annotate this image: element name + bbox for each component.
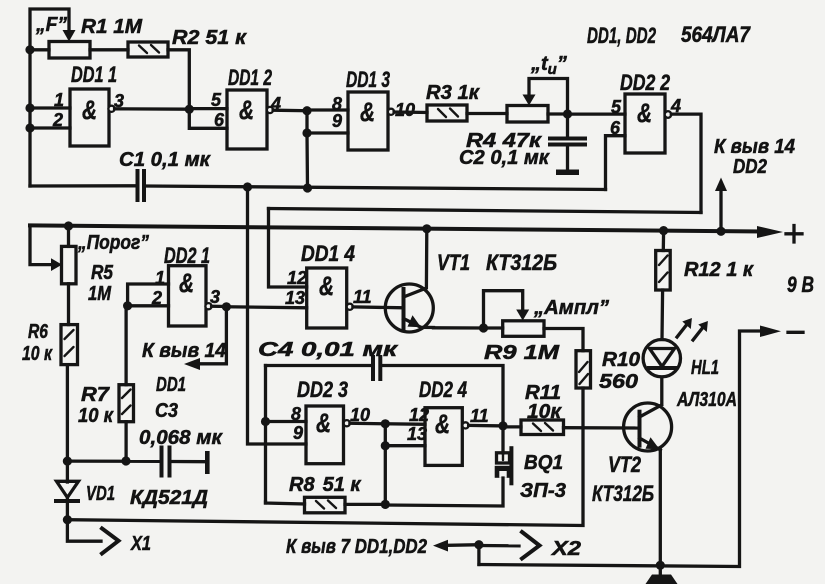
svg-text:5: 5 [211,90,222,110]
node rail-arrow14 [716,227,725,236]
potentiometer R5 [62,246,77,283]
arrow K vyv 14 DD2 [719,189,722,231]
transistor VT1 [385,284,433,332]
svg-text:КТ312Б: КТ312Б [486,250,557,275]
svg-text:DD2 4: DD2 4 [419,377,467,402]
svg-text:10 к: 10 к [78,405,114,427]
C3 end bar [205,451,210,474]
wire tu bracket [529,79,568,115]
minus arrowhead [760,326,781,338]
wire R7 bottom [124,422,127,461]
svg-text:DD2: DD2 [733,156,767,178]
wire R5 top [67,226,70,246]
node R7-C3 [121,456,130,465]
svg-text:C1 0,1 мк: C1 0,1 мк [119,149,211,171]
wire R8 right lead [345,503,385,506]
wire node B loop to pin 9 [307,111,348,133]
C2 plate top [550,137,585,141]
R6 hatch [65,330,74,356]
resistor R10 [576,351,591,388]
diode VD1 lead top [66,461,69,482]
arrow K vyv 14 DD1 [184,358,200,370]
svg-text:3: 3 [210,287,220,307]
R2 hatch [139,45,159,53]
svg-text:C3: C3 [155,400,178,422]
wire R9 right to R10 [544,329,583,351]
resistor R7 [119,385,134,422]
wire DD1.3 out to R3 [394,110,427,114]
HL1 flash arrow 1 [677,323,688,337]
C3 plate left [160,448,164,476]
wire C4 top line [266,364,372,367]
node emitter-bottom [656,561,665,570]
wire vertical x248 [248,187,307,444]
wire C4 right to output node [383,366,504,426]
wire R7 top [124,306,127,385]
VT1 emitter [404,319,434,328]
wire R6 down to C3 line [66,365,69,462]
svg-text:6: 6 [214,110,225,130]
svg-text:13: 13 [285,288,305,308]
svg-text:VT2: VT2 [608,452,642,477]
svg-text:„Порог”: „Порог” [77,232,149,254]
wire x268 from line2 to DD1.4 pin12 [269,209,307,288]
wire BQ1 bottom lead [385,478,503,506]
svg-text:R1 1М: R1 1М [81,16,143,38]
X2 arrowhead [522,532,540,559]
gate DD1.2 [227,90,267,149]
VD1 cathode bar [56,499,78,503]
wire R5 to R6 [67,284,70,325]
HL1 flash arrow 2 [693,326,704,340]
wire R4 right to node C [548,112,568,115]
R3 hatch [438,109,458,118]
wire left rail [30,9,69,186]
svg-text:C4 0,01 мк: C4 0,01 мк [258,339,398,361]
label plus [786,226,802,243]
svg-text:DD1 2: DD1 2 [228,65,273,90]
node rail-R5 [64,221,73,230]
ground symbol [646,575,678,584]
wire line2 [269,209,702,213]
svg-text:R2 51 к: R2 51 к [172,27,247,49]
svg-text:R7: R7 [81,384,110,406]
svg-text:0,068 мк: 0,068 мк [139,427,223,449]
wire node B down to line1 [305,133,309,188]
wire R8 left lead [266,502,305,504]
wire node F to DD2.4 pin12 [385,422,425,426]
svg-text:DD1: DD1 [156,374,186,396]
gate DD2.2 [625,94,665,153]
svg-text:10: 10 [395,100,415,120]
wire node G to R11 [503,425,521,428]
node rail-VT1 [422,224,431,233]
wire DD1.4 out to VT1 base [353,305,404,309]
C3 plate right [168,448,172,476]
HL1 cathode bar [649,366,676,370]
wire R1 wiper arrow [63,30,76,42]
wire rail left loop to R5 wiper [30,225,52,264]
wire C3 right [172,460,205,464]
wire X2 stub down [477,545,480,565]
svg-text:&: & [637,98,652,128]
svg-text:C2 0,1 мк: C2 0,1 мк [459,147,550,169]
svg-text:10к: 10к [527,401,562,423]
wire DD2.3 out to node F [350,422,385,426]
resistor R11 [521,420,564,435]
wire C3 line left [67,459,159,462]
wire node E to R9 [484,326,503,329]
VD1 triangle [57,481,79,497]
svg-text:DD2 3: DD2 3 [297,377,348,402]
wire DD2.2 pin6 loop to line1 [606,136,626,190]
wire DD2.3 pin8 [266,420,307,423]
wire plus rail [30,225,770,231]
capacitor C1 left wire / line1 [30,184,136,187]
VT1 collector [404,229,427,297]
wire VT2 emitter down [659,450,662,565]
stub K vyv 14 DD1 [198,307,226,364]
svg-text:1М: 1М [88,283,112,305]
svg-text:10 к: 10 к [22,343,53,365]
wire node F loop to pin 13 [385,424,425,446]
svg-text:DD1, DD2: DD1, DD2 [587,23,657,48]
wire ground stub [659,565,662,575]
svg-text:R6: R6 [28,321,49,343]
svg-text:АЛ310А: АЛ310А [676,389,737,411]
node D junction [222,302,231,311]
wire node C to DD2.2 pin5 [568,112,626,115]
svg-text:R5: R5 [91,262,114,284]
svg-text:&: & [435,409,450,439]
wire K vyv 7 stub [449,543,479,547]
svg-text:X1: X1 [130,533,151,555]
R9 wiper arrow [516,310,529,321]
K vyv 7 arrowhead [433,540,448,552]
wire HL1 to VT2 collector [660,377,663,404]
gate DD1.4 [307,268,347,328]
node A junction [185,105,194,114]
svg-text:ЗП-3: ЗП-3 [520,480,566,502]
R4 wiper arrow [523,95,536,106]
svg-text:DD1 3: DD1 3 [346,67,390,92]
svg-text:9: 9 [332,111,342,131]
VT1 base bar [402,289,406,329]
wire DD2.1 pin2 [128,304,169,307]
svg-text:2: 2 [52,110,63,130]
DD1.1 output inversion circle pin 3 [108,106,114,112]
svg-text:X2: X2 [551,538,581,560]
label minus [788,331,803,334]
node C junction [563,109,572,118]
R11 hatch [533,423,553,431]
sounder BQ1 [495,448,512,483]
wire DD2.4 out to node G [469,424,503,428]
VT2 emitter [640,438,661,450]
wire line1 right part [146,186,606,190]
svg-text:9: 9 [293,423,303,443]
R5 wiper arrow [51,258,62,271]
wire DD2.1 out to node D [212,305,227,309]
svg-text:R12 1 к: R12 1 к [684,259,754,281]
R7 hatch [122,390,131,415]
R8 hatch [316,501,336,509]
wire DD1.1 out to node A [115,107,190,111]
node E junction [479,323,488,332]
wire R12 top [662,231,666,251]
svg-text:„Ампл”: „Ампл” [533,297,609,319]
node VD1-bottomline [63,515,72,524]
wire X1 stub [67,520,101,542]
node rail-R12 [659,226,668,235]
node F2 junction [381,441,390,450]
wire node A loop to pin 6 [189,109,227,128]
gate DD2.4 [425,408,462,466]
wire R1 left [30,48,49,51]
svg-text:DD2 1: DD2 1 [164,243,210,268]
node pins12-R7 [123,301,132,310]
resistor R8 [305,497,346,513]
svg-text:К выв 14: К выв 14 [142,340,226,362]
C2 bottom lead [566,147,569,170]
svg-text:9 В: 9 В [787,272,814,297]
svg-text:BQ1: BQ1 [524,452,563,474]
svg-text:8: 8 [291,404,301,424]
wire node F down to R8 line [384,446,387,505]
wire BQ1 top lead [501,426,504,453]
svg-text:R3 1к: R3 1к [426,82,480,104]
wire node B to DD1.3 pin8 [307,108,348,111]
svg-text:VD1: VD1 [86,483,115,505]
resistor R6 [61,325,78,365]
C4 plate left [371,357,375,379]
svg-text:&: & [316,408,331,438]
potentiometer R1 [49,42,90,59]
svg-text:564ЛА7: 564ЛА7 [681,22,752,47]
node R6-C3line [63,457,72,466]
pin 1 wire [30,106,70,109]
node line1-x307 [303,183,312,192]
svg-text:1: 1 [54,90,64,110]
DD1.2 output circle pin 4 [267,107,273,113]
wire R12 to HL1 [660,290,664,340]
wire R2 to node [168,50,189,109]
node B junction [302,106,311,115]
C4 plate right [378,357,382,379]
svg-text:HL1: HL1 [691,357,719,379]
wire DD2.2 out down to line2 [671,114,701,212]
svg-text:К выв 7 DD1,DD2: К выв 7 DD1,DD2 [286,536,427,558]
LED HL1 [643,340,680,377]
svg-text:&: & [239,95,254,125]
svg-text:DD1 1: DD1 1 [71,62,117,87]
svg-text:DD1 4: DD1 4 [301,241,355,266]
svg-text:&: & [82,95,97,125]
svg-text:&: & [360,97,375,127]
VT2 emitter arrow [646,437,660,449]
node rail pin2 [25,123,34,132]
svg-text:560: 560 [599,371,638,393]
resistor R3 [427,105,467,121]
wire R3 to R4 [467,112,507,115]
DD2.3 output circle pin 10 [344,420,350,426]
svg-text:КД521Д: КД521Д [130,487,208,509]
wire node D to DD1.4 pin13 [226,307,306,308]
potentiometer R9 [503,321,544,337]
resistor R12 [656,251,671,291]
DD1.3 output circle pin 10 [388,109,394,115]
wire X2 right [479,544,519,548]
wire DD2.3 left outline [264,366,267,504]
R10 hatch [579,362,588,384]
node pin8 [261,417,270,426]
pin 2 wire [30,126,70,129]
gate DD2.3 [306,406,344,464]
wire DD1.2 out to node B [273,109,307,113]
DD2.2 output circle pin 4 [665,111,672,118]
C2 end bar [556,170,579,176]
node rail pin1 [25,103,34,112]
resistor R2 [128,42,168,57]
wire DD2.1 pin1 loop [128,284,169,306]
wire R1 to R2 [90,48,128,51]
C2 plate bottom [550,143,585,147]
svg-text:&: & [319,271,334,301]
node F junction [381,419,390,428]
VT1 emitter arrow [408,315,422,327]
node B2 junction [302,128,311,137]
node R8 right [381,500,390,509]
capacitor C2 lead [566,114,569,137]
DD1.4 output circle pin 11 [347,304,353,310]
svg-text:&: & [179,268,194,298]
svg-text:VT1: VT1 [437,250,470,275]
node G junction [498,421,507,430]
gate DD2.1 [169,266,207,326]
VT2 base bar [638,412,642,446]
svg-text:11: 11 [353,287,372,307]
wire bottom line y565 [479,331,763,567]
svg-text:R10: R10 [602,349,640,371]
R12 hatch [659,256,668,283]
wire R11 to VT2 base [564,426,640,430]
svg-text:DD2 2: DD2 2 [620,70,671,95]
gate DD1.3 [348,92,388,150]
HL1 triangle [650,349,675,367]
node X2 [474,540,483,549]
svg-text:5: 5 [611,97,622,117]
svg-text:К выв 14: К выв 14 [714,136,795,158]
svg-text:R9 1М: R9 1М [484,342,561,364]
svg-text:12: 12 [287,268,307,288]
DD2.1 output circle pin 3 [205,303,211,309]
C1 plate right [142,171,146,200]
wire R9 wiper bracket [484,291,523,328]
svg-text:„F”: „F” [35,14,67,36]
wire R10 bottom long [67,388,583,526]
VD1 lead bottom [66,498,69,520]
VT2 collector [640,405,662,417]
potentiometer R4 [507,106,548,123]
node line1-x248 [243,182,252,191]
svg-text:11: 11 [470,406,489,426]
transistor VT2 [624,403,672,451]
wire VT1 emitter to node E [434,326,484,330]
plus rail arrowhead [757,226,783,238]
svg-text:КТ312Б: КТ312Б [592,481,654,506]
wire node A to DD1.2 pin5 [189,107,227,110]
C1 plate left [136,171,140,200]
DD2.4 output circle pin 11 [462,422,468,428]
X1 arrowhead [102,529,119,554]
node rail-R1 [25,45,34,54]
gate DD1.1 [70,89,109,146]
svg-text:R8 51 к: R8 51 к [289,474,361,496]
